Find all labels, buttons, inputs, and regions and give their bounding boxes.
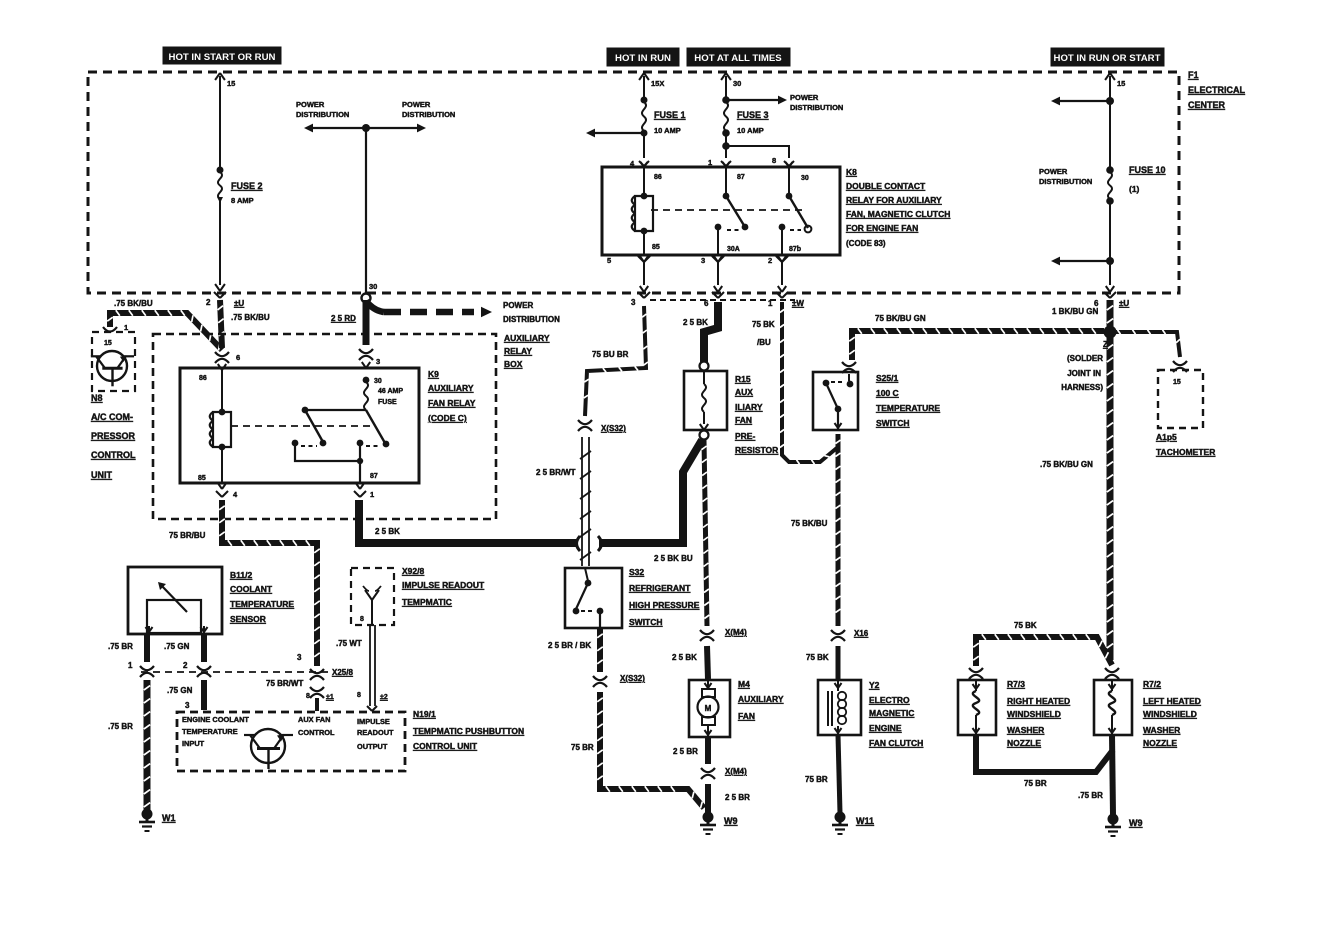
motor M4 box [689, 680, 730, 737]
relay K8 contact 30/87b [779, 167, 812, 255]
svg-text:BOX: BOX [504, 359, 523, 369]
svg-text:LEFT HEATED: LEFT HEATED [1143, 696, 1201, 706]
svg-text:R7/3: R7/3 [1007, 679, 1025, 689]
svg-text:87b: 87b [789, 246, 801, 253]
svg-text:2 5 BR / BK: 2 5 BR / BK [548, 641, 591, 650]
auxiliary relay box dashed [153, 334, 496, 519]
wire 2 5 BR/BK from S32 [548, 628, 603, 672]
svg-text:X92/8: X92/8 [402, 566, 424, 576]
connector X16 [806, 629, 869, 679]
label AUXILIARY RELAY BOX [504, 333, 550, 369]
wire Y2 to ground W11 [805, 735, 840, 813]
wire 75 BK/BU GN [849, 314, 1104, 360]
banner HOT IN RUN [607, 48, 679, 66]
svg-text:R7/2: R7/2 [1143, 679, 1161, 689]
svg-text:IMPULSE READOUT: IMPULSE READOUT [402, 580, 485, 590]
ground W9 right [1105, 814, 1143, 837]
svg-text:SENSOR: SENSOR [230, 614, 266, 624]
relay K8 contact 87/30A [715, 167, 749, 255]
svg-text:10 AMP: 10 AMP [737, 126, 764, 135]
wire node30 to K9 pin 3 [359, 300, 380, 368]
wire fuse2 to connector 2 [215, 199, 225, 291]
wire fuse 1 feed [639, 73, 664, 100]
svg-text:FUSE 2: FUSE 2 [231, 181, 263, 191]
svg-text:ENGINE: ENGINE [869, 723, 902, 733]
svg-text:X(M4): X(M4) [725, 767, 747, 776]
power distribution arrow from fuse 1 [586, 129, 644, 138]
svg-text:75 BU BR: 75 BU BR [592, 350, 629, 359]
svg-text:2: 2 [206, 298, 211, 307]
switch S25/1 box [813, 362, 858, 430]
svg-text:.75 BR: .75 BR [108, 642, 133, 651]
svg-text:±U: ±U [1119, 299, 1129, 308]
relay K9 coil [198, 368, 231, 483]
wire R7/3 bottom to ground join [976, 735, 1113, 788]
svg-text:8 AMP: 8 AMP [231, 196, 254, 205]
svg-text:FUSE 10: FUSE 10 [1129, 165, 1166, 175]
svg-text:PRE-: PRE- [735, 431, 755, 441]
electrical center F1 dashed box [88, 72, 1179, 293]
fuse F10 [1106, 165, 1165, 205]
node 30 open circle [362, 294, 371, 303]
B11/2 labels [230, 570, 294, 624]
power distribution heavy dashed arrow 2 5 RD [331, 301, 560, 324]
svg-text:2 5 RD: 2 5 RD [331, 314, 356, 323]
svg-text:2 5 BR/WT: 2 5 BR/WT [536, 468, 576, 477]
svg-text:±U: ±U [234, 299, 244, 308]
svg-text:2: 2 [768, 256, 772, 265]
svg-text:W11: W11 [856, 816, 874, 826]
svg-text:3: 3 [631, 298, 636, 307]
A/C connector 1 [103, 323, 128, 332]
wire fuse1 to K8 pin 86 [630, 133, 649, 168]
svg-text:HARNESS): HARNESS) [1061, 383, 1103, 392]
switch S32 box [565, 568, 622, 628]
svg-text:JOINT IN: JOINT IN [1067, 369, 1101, 378]
svg-text:/BU: /BU [757, 338, 771, 347]
Y2 labels [869, 680, 923, 748]
S32 labels [629, 567, 700, 627]
wire 75 BU BR [584, 306, 648, 416]
svg-text:W9: W9 [1129, 818, 1143, 828]
svg-text:FAN, MAGNETIC CLUTCH: FAN, MAGNETIC CLUTCH [846, 209, 950, 219]
svg-text:8: 8 [306, 693, 310, 700]
svg-text:8: 8 [357, 692, 361, 699]
svg-text:DISTRIBUTION: DISTRIBUTION [402, 110, 455, 119]
wire fuse3 to K8 pin 87 [708, 133, 731, 167]
N19/1 internal labels [182, 715, 394, 751]
wire tee down to node 30 [366, 128, 377, 293]
ground W1 [139, 809, 176, 832]
svg-text:SWITCH: SWITCH [876, 418, 910, 428]
svg-text:3: 3 [185, 701, 190, 710]
N8 labels [91, 393, 136, 480]
connector X(S32) upper [578, 420, 626, 433]
svg-text:30: 30 [374, 378, 382, 385]
svg-text:.75 BR: .75 BR [1078, 791, 1103, 800]
K8 labels [846, 167, 950, 248]
svg-text:TEMPERATURE: TEMPERATURE [876, 403, 940, 413]
svg-text:POWER: POWER [503, 301, 533, 310]
svg-text:WASHER: WASHER [1007, 725, 1044, 735]
svg-text:B11/2: B11/2 [230, 570, 252, 580]
svg-text:S32: S32 [629, 567, 644, 577]
svg-text:HOT IN RUN: HOT IN RUN [615, 53, 671, 64]
svg-text:.75 GN: .75 GN [167, 686, 193, 695]
wire .75 WT to N19/1 [336, 625, 388, 711]
svg-text:AUXILIARY: AUXILIARY [504, 333, 550, 343]
K9 labels [428, 369, 476, 423]
relay K8 mechanical link [651, 209, 805, 211]
svg-text:3: 3 [701, 256, 705, 265]
svg-text:87: 87 [370, 473, 378, 480]
svg-text:2 5 BK: 2 5 BK [683, 318, 708, 327]
svg-text:NOZZLE: NOZZLE [1007, 738, 1041, 748]
svg-text:86: 86 [199, 375, 207, 382]
svg-text:INPUT: INPUT [182, 739, 205, 748]
svg-text:RELAY FOR AUXILIARY: RELAY FOR AUXILIARY [846, 195, 942, 205]
R15 labels [735, 374, 778, 455]
svg-text:HOT IN RUN OR START: HOT IN RUN OR START [1054, 53, 1161, 64]
svg-text:DISTRIBUTION: DISTRIBUTION [1039, 177, 1092, 186]
svg-text:TEMPMATIC: TEMPMATIC [402, 597, 452, 607]
svg-text:85: 85 [198, 475, 206, 482]
K8 bottom pin 3 wire [701, 256, 724, 292]
svg-text:X(M4): X(M4) [725, 628, 747, 637]
wire 2 5 BK continued to R15 leg [599, 440, 702, 563]
svg-text:UNIT: UNIT [91, 470, 112, 480]
svg-text:86: 86 [654, 174, 662, 181]
svg-text:COOLANT: COOLANT [230, 584, 273, 594]
svg-text:ILIARY: ILIARY [735, 402, 763, 412]
connector 2 aU [206, 292, 270, 322]
M4 labels [738, 679, 784, 721]
svg-text:POWER: POWER [402, 100, 431, 109]
relay K9 box [180, 368, 419, 483]
connector 6 [704, 292, 724, 308]
connector 3 under K8 pin5 [631, 292, 650, 307]
svg-text:WINDSHIELD: WINDSHIELD [1143, 709, 1197, 719]
svg-text:K9: K9 [428, 369, 439, 379]
svg-text:15: 15 [104, 340, 112, 347]
svg-text:2: 2 [183, 661, 188, 670]
svg-text:N8: N8 [91, 393, 103, 403]
S25/1 labels [876, 373, 940, 428]
branch wire to K8 pin 30 [726, 146, 794, 167]
svg-text:1: 1 [768, 299, 773, 308]
svg-text:.75 BR: .75 BR [108, 722, 133, 731]
svg-text:K8: K8 [846, 167, 857, 177]
svg-text:75 BK: 75 BK [806, 653, 829, 662]
X92/8 labels [402, 566, 485, 607]
A/C compressor control unit N8 dashed box [92, 332, 135, 391]
svg-text:(1): (1) [1129, 184, 1140, 194]
wire 75 BR/BU from K9 pin 4 [169, 500, 320, 666]
svg-text:FUSE: FUSE [378, 399, 397, 406]
ground W11 [832, 812, 874, 835]
svg-text:TEMPERATURE: TEMPERATURE [230, 599, 294, 609]
control unit N19/1 dashed box [177, 712, 405, 771]
svg-text:DISTRIBUTION: DISTRIBUTION [503, 315, 560, 324]
svg-text:FAN: FAN [735, 415, 752, 425]
K8 bottom pin 2 wire [768, 256, 788, 292]
svg-text:W1: W1 [162, 813, 176, 823]
svg-text:75 BK: 75 BK [752, 320, 775, 329]
wire A/C to K9 pin 6 (.75 BK/BU) [107, 299, 222, 350]
resistor R15 [684, 362, 727, 440]
sensor B11/2 box [128, 567, 222, 634]
svg-text:15: 15 [1173, 379, 1181, 386]
svg-text:1: 1 [128, 661, 133, 670]
svg-text:75 BK: 75 BK [1014, 621, 1037, 630]
wire fuse 10 feed [1105, 73, 1125, 168]
svg-text:AUX FAN: AUX FAN [298, 715, 330, 724]
label F1 ELECTRICAL CENTER [1188, 70, 1245, 110]
svg-text:A1p5: A1p5 [1156, 432, 1177, 442]
svg-text:FUSE 3: FUSE 3 [737, 110, 769, 120]
svg-text:15: 15 [227, 79, 235, 88]
svg-text:ENGINE COOLANT: ENGINE COOLANT [182, 715, 249, 724]
svg-text:X16: X16 [854, 629, 869, 638]
svg-text:FAN: FAN [738, 711, 755, 721]
connector X(S32) lower [593, 674, 645, 687]
svg-text:X25/8: X25/8 [332, 668, 353, 677]
svg-text:S25/1: S25/1 [876, 373, 898, 383]
svg-text:X(S32): X(S32) [620, 674, 645, 683]
svg-text:POWER: POWER [296, 100, 325, 109]
svg-text:RESISTOR: RESISTOR [735, 445, 778, 455]
svg-text:RIGHT HEATED: RIGHT HEATED [1007, 696, 1070, 706]
svg-text:HIGH PRESSURE: HIGH PRESSURE [629, 600, 700, 610]
svg-text:30: 30 [733, 79, 741, 88]
svg-text:AUX: AUX [735, 387, 753, 397]
K8 bottom pin 5 wire [607, 256, 650, 292]
svg-text:6: 6 [704, 299, 709, 308]
wire fuse 3 feed [721, 73, 741, 100]
svg-text:RELAY: RELAY [504, 346, 532, 356]
connector 1 aW [768, 292, 804, 308]
svg-text:CONTROL: CONTROL [298, 728, 335, 737]
svg-text:2 5 BK: 2 5 BK [672, 653, 697, 662]
fuse F1 10 AMP [641, 97, 686, 137]
svg-text:100 C: 100 C [876, 388, 899, 398]
svg-text:1: 1 [124, 323, 128, 332]
svg-text:REFRIGERANT: REFRIGERANT [629, 583, 691, 593]
svg-text:TACHOMETER: TACHOMETER [1156, 447, 1215, 457]
svg-text:FUSE 1: FUSE 1 [654, 110, 686, 120]
svg-text:2 5 BK: 2 5 BK [375, 527, 400, 536]
svg-text:FAN RELAY: FAN RELAY [428, 398, 476, 408]
svg-text:.75 GN: .75 GN [164, 642, 190, 651]
svg-text:POWER: POWER [790, 93, 819, 102]
crossover hop arcs [577, 536, 602, 551]
svg-text:87: 87 [737, 174, 745, 181]
svg-text:DISTRIBUTION: DISTRIBUTION [790, 103, 843, 112]
B11/2 pin 2 stub [164, 634, 211, 677]
connector 6 aU right [1052, 292, 1129, 316]
svg-text:(SOLDER: (SOLDER [1067, 354, 1103, 363]
wire .75 BK branch to R7/3 [973, 621, 1112, 666]
shielded wire 2 5 BR/WT down to S32 [536, 437, 591, 566]
wire 75 BR to ground join [571, 692, 704, 808]
svg-text:2 5 BR: 2 5 BR [673, 747, 698, 756]
wire connector2 down to K9 pin 6 [215, 300, 240, 370]
R7/2 labels [1143, 679, 1201, 748]
svg-text:8: 8 [360, 616, 364, 623]
wire 75 BK/BU from connector 1 [752, 302, 838, 464]
svg-text:AUXILIARY: AUXILIARY [428, 383, 474, 393]
svg-text:TEMPERATURE: TEMPERATURE [182, 727, 238, 736]
label .75 BK/BU GN [1040, 460, 1093, 469]
svg-text:2 5 BK BU: 2 5 BK BU [654, 554, 693, 563]
svg-text:.75 BK/BU GN: .75 BK/BU GN [1040, 460, 1093, 469]
svg-text:30: 30 [801, 175, 809, 182]
solder joint Z [1061, 326, 1116, 393]
svg-text:.75 BK/BU: .75 BK/BU [231, 313, 270, 322]
wire to M4 [707, 646, 708, 679]
svg-text:NOZZLE: NOZZLE [1143, 738, 1177, 748]
svg-text:75 BR: 75 BR [805, 775, 828, 784]
svg-text:R15: R15 [735, 374, 751, 384]
svg-text:3: 3 [297, 653, 302, 662]
wire fuse 2 feed [215, 73, 235, 170]
K9 pin 4 connector [216, 483, 238, 499]
svg-text:3: 3 [376, 357, 380, 366]
svg-text:Y2: Y2 [869, 680, 880, 690]
svg-text:PRESSOR: PRESSOR [91, 431, 136, 441]
svg-text:30: 30 [369, 282, 377, 291]
svg-text:5: 5 [607, 256, 611, 265]
connector X25/8 dashed line [141, 668, 353, 677]
svg-text:HOT IN START OR RUN: HOT IN START OR RUN [169, 52, 276, 63]
svg-text:CONTROL UNIT: CONTROL UNIT [413, 741, 478, 751]
label power distribution right [1039, 167, 1092, 186]
svg-text:AUXILIARY: AUXILIARY [738, 694, 784, 704]
svg-text:SWITCH: SWITCH [629, 617, 663, 627]
dashed connector strip [650, 299, 795, 301]
svg-text:46 AMP: 46 AMP [378, 388, 403, 395]
connector X25/8 pin 3 [266, 653, 334, 711]
wire S25/1 to X16 [791, 434, 841, 626]
wire M4 to ground W9 [673, 737, 750, 813]
svg-text:75 BR: 75 BR [571, 743, 594, 752]
svg-text:MAGNETIC: MAGNETIC [869, 708, 914, 718]
svg-text:M: M [705, 704, 712, 713]
power distribution arrow upper right [1051, 97, 1114, 106]
tachometer A1p5 dashed box [1158, 370, 1203, 428]
svg-text:6: 6 [236, 353, 240, 362]
svg-text:10 AMP: 10 AMP [654, 126, 681, 135]
svg-text:HOT AT ALL TIMES: HOT AT ALL TIMES [694, 53, 782, 64]
K9 internal fuse 46 AMP [363, 377, 404, 410]
svg-text:FOR ENGINE FAN: FOR ENGINE FAN [846, 223, 918, 233]
svg-text:CENTER: CENTER [1188, 100, 1226, 110]
svg-text:CONTROL: CONTROL [91, 450, 136, 460]
svg-text:30A: 30A [727, 246, 740, 253]
svg-text:DOUBLE CONTACT: DOUBLE CONTACT [846, 181, 926, 191]
svg-text:X(S32): X(S32) [601, 424, 626, 433]
wire R7/2 to ground W9 [1078, 735, 1113, 815]
svg-text:.75 BK/BU: .75 BK/BU [114, 299, 153, 308]
B11/2 pin 1 stub [108, 634, 154, 677]
svg-text:(CODE C): (CODE C) [428, 413, 467, 423]
R7/3 labels [1007, 679, 1070, 748]
ground W9 [700, 812, 738, 835]
relay K8 coil [632, 167, 662, 255]
svg-text:75 BR/BU: 75 BR/BU [169, 531, 206, 540]
fuse F2 8 AMP [217, 167, 263, 206]
svg-text:WASHER: WASHER [1143, 725, 1180, 735]
svg-text:1 BK/BU GN: 1 BK/BU GN [1052, 307, 1098, 316]
washer nozzle R7/2 [1094, 668, 1132, 735]
A1p5 labels [1156, 432, 1215, 457]
K9 pin 1 connector [354, 483, 374, 499]
connector X(M4) upper [672, 628, 747, 662]
K9 contacts [292, 407, 390, 483]
svg-text:85: 85 [652, 244, 660, 251]
svg-text:15: 15 [1117, 79, 1125, 88]
svg-text:DISTRIBUTION: DISTRIBUTION [296, 110, 349, 119]
wire .75 BR to ground W1 [108, 680, 150, 810]
power distribution arrow lower right [1051, 201, 1114, 292]
svg-text:75 BK/BU GN: 75 BK/BU GN [875, 314, 926, 323]
relay K8 box [602, 167, 840, 255]
power distribution arrow from fuse 3 [722, 93, 843, 112]
svg-text:Z: Z [1103, 340, 1108, 349]
svg-text:75 BK/BU: 75 BK/BU [791, 519, 828, 528]
svg-text:OUTPUT: OUTPUT [357, 742, 388, 751]
svg-text:ELECTRICAL: ELECTRICAL [1188, 85, 1245, 95]
svg-text:POWER: POWER [1039, 167, 1068, 176]
N19/1 labels [413, 709, 524, 751]
svg-text:(CODE 83): (CODE 83) [846, 239, 886, 248]
svg-text:2 5 BR: 2 5 BR [725, 793, 750, 802]
clutch Y2 box [818, 680, 861, 735]
wire 1 BK/BU GN main right [1107, 300, 1113, 660]
relay K9 mechanical link [231, 425, 372, 427]
svg-text:M4: M4 [738, 679, 750, 689]
svg-text:.75 WT: .75 WT [336, 639, 362, 648]
svg-text:±1: ±1 [326, 694, 334, 701]
banner HOT IN START OR RUN [163, 47, 281, 64]
svg-text:75 BR/WT: 75 BR/WT [266, 679, 303, 688]
wire R15 to X(M4) [702, 440, 710, 626]
connector X92/8 dashed box [351, 568, 394, 625]
svg-text:75 BR: 75 BR [1024, 779, 1047, 788]
svg-text:±2: ±2 [380, 694, 388, 701]
svg-text:W9: W9 [724, 816, 738, 826]
svg-text:N19/1: N19/1 [413, 709, 436, 719]
svg-text:A/C COM-: A/C COM- [91, 412, 133, 422]
svg-text:ELECTRO: ELECTRO [869, 695, 910, 705]
N19/1 transistor [244, 729, 293, 769]
fuse F3 10 AMP [722, 102, 768, 137]
svg-text:15X: 15X [651, 79, 664, 88]
wire 2 5 BK from K9 pin 1 [359, 500, 577, 543]
banner HOT AT ALL TIMES [687, 48, 790, 66]
wire 2 5 BK to R15 [683, 302, 718, 362]
svg-text:8: 8 [772, 156, 776, 165]
svg-text:±W: ±W [792, 299, 804, 308]
svg-text:IMPULSE: IMPULSE [357, 717, 390, 726]
power distribution arrows left [296, 100, 455, 132]
A/C transistor symbol [91, 351, 134, 386]
washer nozzle R7/3 [958, 668, 996, 735]
svg-text:WINDSHIELD: WINDSHIELD [1007, 709, 1061, 719]
svg-text:READOUT: READOUT [357, 728, 394, 737]
svg-text:1: 1 [370, 490, 374, 499]
banner HOT IN RUN OR START [1051, 48, 1164, 66]
